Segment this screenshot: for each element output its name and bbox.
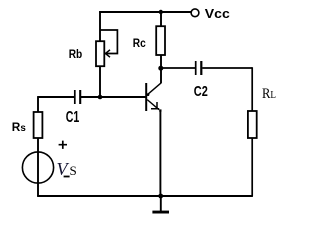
transistor Q1 emitter arrowhead barbs <box>151 102 159 109</box>
ground stem <box>160 196 162 211</box>
wire top rail Vcc <box>99 11 191 13</box>
svg-text:Rc: Rc <box>133 36 146 50</box>
node Vcc rail junction dot <box>159 10 163 14</box>
transistor Q1 collector attach dot <box>147 93 150 96</box>
capacitor C2 plates <box>195 61 197 75</box>
svg-text:C1: C1 <box>66 109 80 126</box>
wire Rb bottom to base node <box>99 66 101 97</box>
node base junction dot <box>98 95 103 100</box>
wire collector node to C2 <box>161 67 195 69</box>
transistor Q1 emitter arrow tip <box>159 109 161 111</box>
svg-text:RL: RL <box>262 86 276 102</box>
transistor Q1 base bar <box>145 83 147 111</box>
transistor Q1 collector diagonal <box>147 83 161 95</box>
svg-text:S: S <box>70 163 77 178</box>
terminal Vcc circle <box>191 9 199 17</box>
svg-text:Rs: Rs <box>12 120 26 134</box>
resistor Rb (potentiometer body) <box>96 41 104 66</box>
wire C2 to RL corner <box>202 67 252 69</box>
resistor RL <box>248 111 257 138</box>
label plus <box>59 141 67 149</box>
wire bottom rail <box>37 195 253 197</box>
wiper arrowhead <box>105 50 110 57</box>
wire source corner to C1 <box>38 96 74 98</box>
wire collector vertical <box>160 68 162 83</box>
svg-text:C2: C2 <box>194 83 208 100</box>
svg-text:Rb: Rb <box>69 47 83 61</box>
source Vs circle <box>22 152 53 183</box>
wire RL to bottom rail <box>251 138 253 196</box>
transistor Q1 emitter diagonal <box>147 100 159 110</box>
svg-text:Vcc: Vcc <box>205 6 230 21</box>
label minus <box>64 176 70 178</box>
node collector junction dot <box>158 66 163 71</box>
wire top rail to Rc <box>160 12 162 27</box>
capacitor C1 plates <box>74 90 76 104</box>
node ground junction dot <box>158 194 163 199</box>
wire left branch down to Rs <box>37 96 39 112</box>
wire Rs to Vs and through to bottom rail <box>37 138 39 196</box>
ground bar <box>152 211 169 214</box>
resistor Rc <box>156 26 165 55</box>
wire potentiometer wiper bracket <box>100 30 117 54</box>
wire emitter vertical <box>159 111 161 196</box>
resistor Rs <box>34 112 43 138</box>
wire right branch down to RL <box>251 67 253 111</box>
wire C1 to base <box>81 96 147 98</box>
wire left drop from top rail to Rb <box>99 11 101 41</box>
wire Rc bottom to collector node <box>160 55 162 68</box>
